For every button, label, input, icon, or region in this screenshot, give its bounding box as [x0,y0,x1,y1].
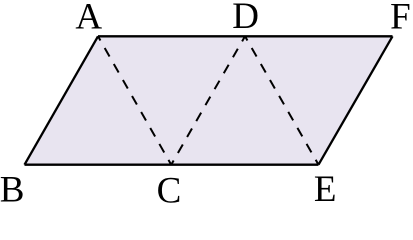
wire edge F-E (right side, solid) [319,36,393,164]
svg-text:D: D [232,0,259,37]
wire edge E-B (bottom side, solid) [25,164,319,166]
svg-text:C: C [157,170,182,209]
svg-text:F: F [390,0,411,37]
svg-text:E: E [314,169,337,209]
wire edge A-F (top side, solid) [98,35,393,37]
dashed segment C-D [171,36,245,164]
svg-text:A: A [75,0,102,37]
dashed segment D-E [245,36,319,164]
dashed segment A-C [98,36,171,164]
parallelogram BAFE interior fill [25,36,393,164]
wire edge B-A (left side, solid) [25,36,99,164]
svg-text:B: B [0,169,24,209]
